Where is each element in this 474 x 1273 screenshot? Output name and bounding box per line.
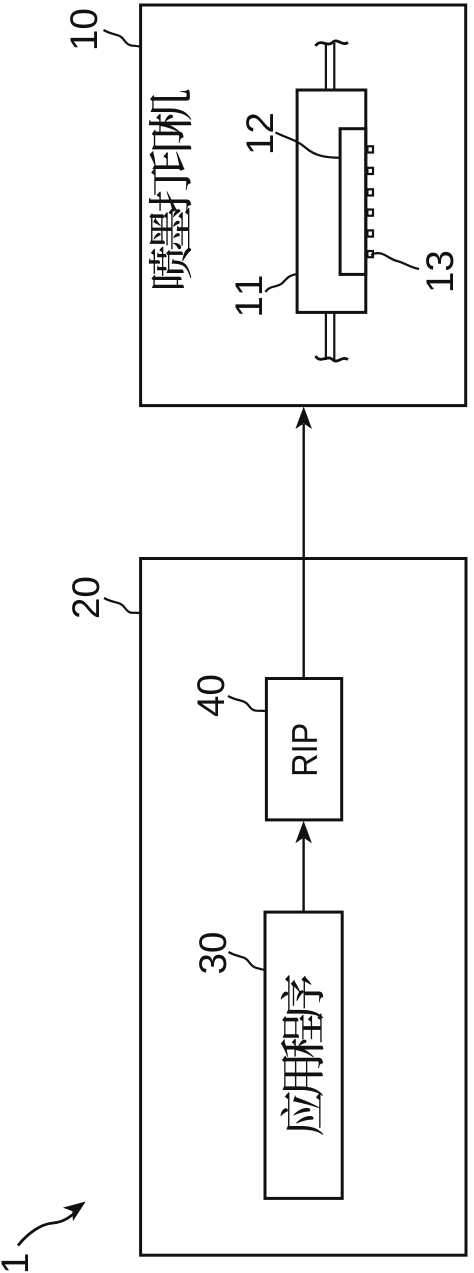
text application (CJK)	[280, 975, 323, 1135]
figure number 1	[2, 1254, 28, 1271]
box 10 (inkjet printer)	[141, 5, 466, 406]
arrow RIP to printer	[295, 407, 312, 679]
figure pointer arrow	[18, 1202, 86, 1246]
label 10	[70, 10, 97, 48]
label 11	[236, 277, 262, 315]
RIP text	[292, 724, 317, 774]
text inkjet printer (CJK)	[149, 90, 192, 288]
label 30	[199, 933, 226, 973]
leader 20	[104, 598, 140, 613]
label 12	[246, 114, 273, 152]
shaft break squiggle right	[316, 41, 349, 46]
box 40 (RIP)	[266, 679, 341, 820]
leader 10	[104, 30, 140, 47]
arrow application to RIP	[295, 821, 312, 912]
leader 12	[276, 133, 341, 158]
leader 30	[229, 952, 265, 970]
carriage 11	[297, 90, 366, 312]
print head 12	[340, 129, 366, 275]
carriage shaft right	[326, 43, 334, 90]
label 40	[197, 676, 224, 716]
label 13	[426, 252, 453, 290]
label 20	[72, 578, 99, 617]
box 20 (computer)	[141, 559, 466, 1256]
box 30 (application)	[265, 912, 342, 1198]
shaft break squiggle left	[316, 356, 349, 361]
leader 11	[266, 274, 297, 292]
leader 13	[371, 253, 419, 269]
carriage shaft left	[326, 312, 334, 360]
nozzles 13	[367, 146, 373, 257]
leader 40	[228, 696, 265, 711]
